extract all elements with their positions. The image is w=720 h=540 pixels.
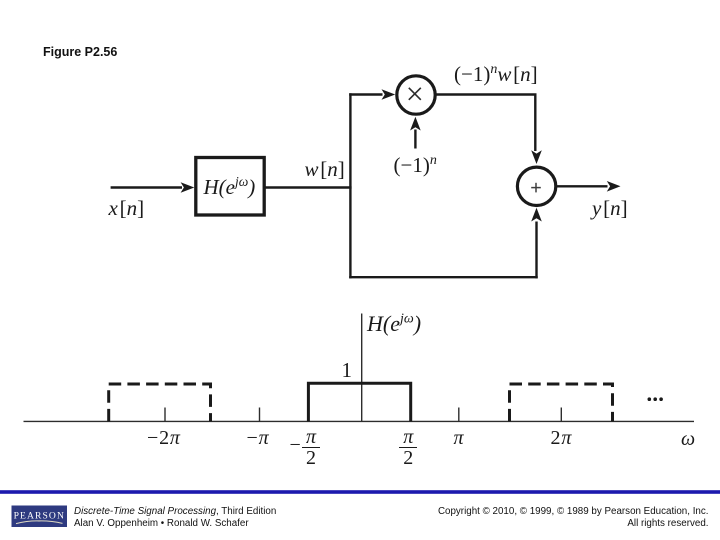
- svg-text:PEARSON: PEARSON: [14, 511, 65, 522]
- label -pi/2 fraction: [302, 427, 320, 468]
- figure title: [43, 45, 117, 59]
- label pi/2 fraction: [399, 427, 417, 468]
- wire: bottom feed-forward rail: [349, 276, 538, 278]
- dashed replica box at +2pi: [510, 384, 613, 421]
- footer blue rule: [0, 490, 720, 494]
- block H(e^jw): [196, 158, 264, 216]
- label 2pi: [551, 428, 573, 448]
- label H(e^jw) inside block: [204, 177, 256, 198]
- label omega: [681, 429, 695, 449]
- wire: x[n] input arrow into H box: [111, 182, 195, 193]
- tick -pi: [259, 408, 261, 422]
- label H(e^jw) on plot axis: [367, 313, 421, 335]
- adder node (circle with +): [517, 167, 555, 205]
- label x[n]: [109, 198, 145, 219]
- solid passband box: [308, 383, 410, 421]
- tick -2pi: [164, 408, 166, 422]
- label pi: [454, 428, 464, 448]
- multiplier node (circle with x): [397, 76, 435, 114]
- wire: top run with arrow into multiplier: [349, 89, 395, 100]
- wire: right riser with arrow into adder bottom: [531, 208, 542, 279]
- label (-1)^n w[n]: [454, 64, 538, 85]
- wire: vertical riser at junction: [349, 93, 351, 278]
- label y[n]: [592, 198, 628, 219]
- label (-1)^n: [394, 155, 437, 176]
- label minus of -pi/2: [290, 435, 301, 455]
- dashed replica box at -2pi: [109, 384, 211, 421]
- label 1: [342, 360, 353, 381]
- footer left text: [74, 506, 276, 530]
- H(e^jw) vertical axis: [361, 314, 363, 423]
- ellipsis dots: [648, 397, 663, 401]
- wire: adder output arrow y[n]: [556, 181, 621, 192]
- omega axis: [24, 420, 695, 422]
- wire: (-1)^n input arrow up into multiplier: [410, 117, 421, 149]
- wire: H box output to junction: [264, 186, 351, 188]
- label -pi: [247, 428, 270, 448]
- footer right text: [438, 506, 709, 530]
- label w[n]: [305, 159, 345, 180]
- wire: multiplier output to adder (right then down, arrow into adder top): [435, 95, 542, 165]
- Pearson logo: [12, 506, 68, 528]
- tick 2pi: [560, 408, 562, 422]
- label -2pi: [147, 428, 181, 448]
- tick pi: [458, 408, 460, 422]
